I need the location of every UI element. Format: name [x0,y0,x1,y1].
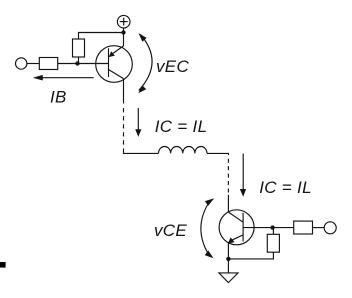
svg-text:IC = IL: IC = IL [259,178,312,197]
svg-text:IC = IL: IC = IL [155,117,208,136]
svg-text:IB: IB [50,87,67,106]
svg-text:vEC: vEC [156,57,189,76]
svg-text:vCE: vCE [154,221,187,240]
